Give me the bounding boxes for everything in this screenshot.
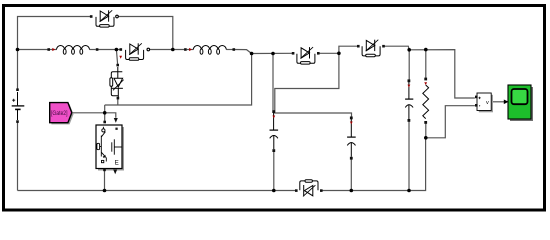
capacitor C2: [347, 117, 356, 160]
wire gate: [72, 113, 116, 118]
node top-corner junction: [171, 48, 175, 52]
diode D1: [90, 10, 118, 27]
inductor L1: [47, 45, 98, 54]
wire node A to L1: [18, 49, 48, 51]
wire D5 top: [116, 50, 117, 65]
IGBT block U1: [96, 118, 124, 174]
wire D5 bottom: [117, 98, 119, 105]
wire L2 to node B: [235, 50, 252, 54]
wire L1 stub right: [90, 49, 96, 51]
D5 red mark: [119, 56, 122, 59]
wire D4 to node E: [385, 46, 410, 50]
wire node D down loop to C2: [275, 53, 352, 116]
node bus C2: [350, 189, 354, 193]
wire Cf to bus: [408, 122, 410, 191]
node bus Cf: [407, 189, 411, 193]
wire node D up to D4: [339, 46, 357, 53]
wire D2 to L2: [150, 49, 185, 51]
wire C2 to bus: [350, 159, 352, 190]
wire node E to corner right: [409, 50, 475, 98]
resistor R load: [423, 78, 429, 124]
wire bus right: [323, 138, 426, 191]
wire L2 stub left: [187, 49, 194, 51]
L2 red arrow: [189, 48, 192, 51]
wire node B to D6: [252, 52, 292, 54]
node A junction: [16, 48, 20, 52]
node B junction: [250, 52, 254, 56]
wire bus left: [18, 190, 296, 192]
diode D2: [120, 43, 150, 60]
wire collector drop: [104, 105, 106, 121]
R red arrow: [424, 82, 427, 85]
svg-text:E: E: [115, 159, 119, 166]
wire node E down to Cf: [408, 50, 410, 80]
DC source battery: [12, 88, 25, 123]
wire R to junction G: [425, 124, 427, 138]
wire source top: [17, 50, 19, 90]
Cf red arrow: [408, 85, 411, 88]
svg-text:[Gate2]: [Gate2]: [51, 110, 68, 117]
diode D5 vertical: [110, 64, 124, 100]
capacitor C1: [270, 110, 279, 152]
node bus emitter: [103, 189, 107, 193]
node G junction: [424, 136, 428, 140]
wire V out to scope: [492, 101, 505, 103]
arrow into scope: [504, 100, 509, 105]
scope block: [508, 85, 533, 121]
wire C1 to bus: [273, 152, 275, 191]
C1 red arrow: [272, 116, 275, 119]
node bus C1: [272, 189, 276, 193]
L1 red arrow: [52, 48, 55, 51]
node gate crossing: [103, 111, 107, 115]
node C junction: [271, 52, 275, 56]
node D5-top junction: [115, 48, 119, 52]
wire L2 stub right: [226, 49, 232, 51]
wire node F down to R: [425, 50, 427, 78]
diode D4: [357, 40, 385, 57]
capacitor Cf: [405, 79, 413, 121]
diode D7 bottom: [295, 180, 323, 197]
svg-text:v: v: [486, 100, 489, 106]
wire source bottom: [17, 123, 19, 191]
wire L1 to D2: [98, 49, 120, 51]
wire L1 stub left: [50, 49, 57, 51]
inductor L2: [184, 45, 235, 54]
wire D1 to corner: [118, 17, 173, 50]
From block Gate2: [50, 103, 74, 125]
node E junction: [407, 48, 411, 52]
node F junction: [424, 48, 428, 52]
wire D6 to node D: [320, 52, 339, 54]
wire collector rail: [105, 54, 252, 106]
node D junction: [337, 52, 341, 56]
wire top loop: [18, 17, 92, 50]
voltage measurement V1: [475, 93, 493, 112]
C2 red arrow: [350, 122, 353, 125]
wire emitter to bus: [104, 171, 106, 191]
wire node C down to C1: [272, 54, 274, 111]
diode D6: [292, 47, 320, 64]
wire junction G to Vminus: [426, 106, 475, 138]
